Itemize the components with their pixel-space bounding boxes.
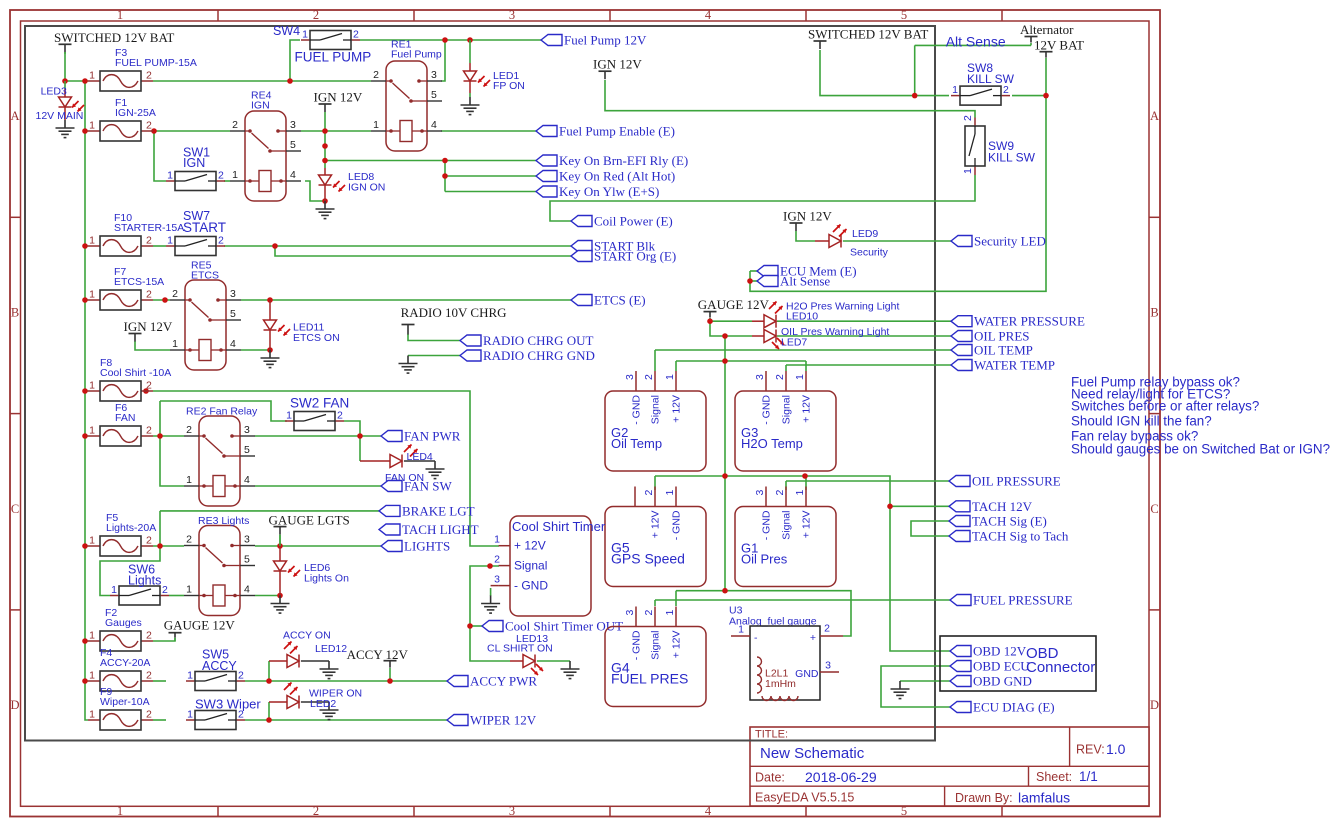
svg-text:Sheet:: Sheet: (1036, 770, 1072, 784)
svg-text:1: 1 (111, 584, 117, 596)
svg-text:1: 1 (89, 535, 95, 547)
svg-text:+ 12V: + 12V (801, 395, 813, 423)
svg-text:Signal: Signal (514, 559, 547, 573)
svg-text:TACH Sig (E): TACH Sig (E) (972, 514, 1047, 529)
svg-text:Key On Brn-EFI Rly (E): Key On Brn-EFI Rly (E) (559, 153, 688, 168)
svg-text:1: 1 (89, 380, 95, 392)
svg-text:IGN-25A: IGN-25A (115, 107, 156, 119)
svg-text:2: 2 (146, 425, 152, 437)
svg-text:Oil Temp: Oil Temp (611, 436, 662, 451)
svg-text:GPS Speed: GPS Speed (611, 551, 685, 567)
svg-text:Alt Sense: Alt Sense (780, 274, 830, 289)
svg-text:2: 2 (494, 554, 500, 566)
svg-text:A: A (1150, 109, 1159, 123)
svg-text:ETCS-15A: ETCS-15A (114, 276, 164, 288)
svg-text:WIPER 12V: WIPER 12V (470, 713, 537, 728)
svg-text:1: 1 (167, 235, 173, 247)
svg-text:+ 12V: + 12V (671, 395, 683, 423)
svg-text:Lights: Lights (128, 574, 161, 588)
svg-text:H2O Temp: H2O Temp (741, 436, 803, 451)
svg-text:OBD ECU: OBD ECU (973, 659, 1030, 674)
svg-text:5: 5 (901, 8, 907, 22)
svg-text:2: 2 (218, 170, 224, 182)
svg-text:GAUGE LGTS: GAUGE LGTS (269, 513, 350, 528)
svg-text:LED12: LED12 (315, 643, 347, 655)
svg-text:1: 1 (952, 84, 958, 96)
svg-text:1: 1 (232, 169, 238, 181)
svg-text:1: 1 (664, 610, 676, 616)
svg-text:Gauges: Gauges (105, 617, 142, 629)
svg-text:FAN: FAN (115, 412, 135, 424)
svg-text:2: 2 (146, 235, 152, 247)
svg-text:1: 1 (167, 170, 173, 182)
svg-text:EasyEDA V5.5.15: EasyEDA V5.5.15 (755, 791, 854, 805)
svg-text:FAN PWR: FAN PWR (404, 429, 461, 444)
svg-text:1: 1 (286, 410, 292, 422)
svg-text:Key On Ylw (E+S): Key On Ylw (E+S) (559, 184, 659, 199)
svg-text:SWITCHED 12V BAT: SWITCHED 12V BAT (54, 30, 174, 45)
svg-text:LED9: LED9 (852, 228, 878, 240)
svg-text:OBD GND: OBD GND (973, 674, 1032, 689)
svg-text:1: 1 (187, 709, 193, 721)
svg-text:2: 2 (353, 29, 359, 41)
svg-text:ACCY: ACCY (202, 659, 237, 673)
svg-text:1: 1 (89, 709, 95, 721)
svg-text:- GND: - GND (514, 579, 548, 593)
svg-text:ECU DIAG (E): ECU DIAG (E) (973, 700, 1055, 715)
svg-text:12V MAIN: 12V MAIN (36, 110, 84, 122)
svg-text:+ 12V: + 12V (650, 511, 662, 539)
svg-text:FUEL PRES: FUEL PRES (611, 671, 688, 687)
svg-text:1: 1 (794, 490, 806, 496)
svg-text:2: 2 (146, 535, 152, 547)
svg-text:2: 2 (172, 288, 178, 300)
svg-text:Security LED: Security LED (974, 234, 1046, 249)
svg-text:1: 1 (89, 425, 95, 437)
svg-text:1: 1 (794, 374, 806, 380)
svg-text:2: 2 (146, 70, 152, 82)
svg-text:SW3 Wiper: SW3 Wiper (195, 697, 261, 712)
svg-text:Cool Shirt Timer: Cool Shirt Timer (512, 519, 606, 534)
svg-text:TACH LIGHT: TACH LIGHT (402, 522, 479, 537)
svg-text:OIL TEMP: OIL TEMP (974, 343, 1033, 358)
svg-text:START Org (E): START Org (E) (594, 249, 676, 264)
svg-text:C: C (11, 502, 19, 516)
svg-text:1: 1 (302, 29, 308, 41)
svg-text:2: 2 (162, 584, 168, 596)
svg-text:IGN: IGN (251, 100, 270, 112)
svg-text:3: 3 (754, 374, 766, 380)
svg-text:LIGHTS: LIGHTS (404, 539, 450, 554)
svg-text:- GND: - GND (761, 395, 773, 425)
svg-text:ACCY-20A: ACCY-20A (100, 657, 150, 669)
svg-text:GAUGE 12V: GAUGE 12V (698, 297, 770, 312)
svg-text:KILL SW: KILL SW (967, 72, 1015, 86)
svg-text:4: 4 (230, 338, 236, 350)
svg-text:1: 1 (186, 584, 192, 596)
svg-text:1: 1 (664, 374, 676, 380)
svg-text:WATER PRESSURE: WATER PRESSURE (974, 314, 1085, 329)
svg-text:OIL PRES: OIL PRES (974, 329, 1030, 344)
svg-text:A: A (10, 109, 19, 123)
svg-text:1: 1 (373, 119, 379, 131)
svg-text:FAN ON: FAN ON (385, 472, 424, 484)
svg-text:2: 2 (146, 380, 152, 392)
svg-text:2: 2 (238, 670, 244, 682)
svg-text:1: 1 (89, 289, 95, 301)
svg-text:Fuel Pump: Fuel Pump (391, 49, 442, 61)
svg-text:2: 2 (774, 374, 786, 380)
svg-text:+ 12V: + 12V (514, 539, 546, 553)
svg-text:Connector: Connector (1026, 659, 1095, 676)
svg-text:Security: Security (850, 247, 889, 259)
svg-text:3: 3 (624, 610, 636, 616)
svg-text:WATER TEMP: WATER TEMP (974, 358, 1055, 373)
svg-text:1: 1 (187, 670, 193, 682)
svg-text:1: 1 (172, 338, 178, 350)
svg-text:- GND: - GND (671, 510, 683, 540)
svg-text:2: 2 (643, 490, 655, 496)
svg-text:3: 3 (825, 660, 831, 672)
svg-text:2: 2 (337, 410, 343, 422)
svg-text:IGN 12V: IGN 12V (593, 57, 642, 72)
svg-text:Signal: Signal (650, 395, 662, 424)
svg-text:1: 1 (738, 624, 744, 636)
svg-text:D: D (1150, 698, 1159, 712)
svg-text:2: 2 (962, 115, 974, 121)
svg-text:B: B (11, 305, 19, 319)
svg-text:ACCY 12V: ACCY 12V (347, 647, 409, 662)
svg-text:GND: GND (795, 668, 819, 680)
svg-text:REV:: REV: (1076, 743, 1105, 757)
svg-text:RE2 Fan Relay: RE2 Fan Relay (186, 406, 258, 418)
svg-text:New Schematic: New Schematic (760, 745, 865, 762)
svg-text:3: 3 (290, 119, 296, 131)
svg-text:3: 3 (509, 8, 515, 22)
svg-text:Key On Red (Alt Hot): Key On Red (Alt Hot) (559, 169, 675, 184)
svg-text:3: 3 (494, 574, 500, 586)
svg-text:4: 4 (290, 169, 296, 181)
svg-text:1: 1 (89, 630, 95, 642)
svg-text:5: 5 (244, 554, 250, 566)
svg-text:- GND: - GND (631, 395, 643, 425)
svg-text:4: 4 (244, 474, 250, 486)
svg-text:1: 1 (962, 168, 974, 174)
svg-text:Alt Sense: Alt Sense (946, 34, 1006, 50)
svg-text:+: + (810, 632, 816, 644)
svg-text:2: 2 (643, 374, 655, 380)
svg-text:1: 1 (89, 670, 95, 682)
svg-text:3: 3 (509, 804, 515, 818)
svg-text:3: 3 (230, 288, 236, 300)
svg-text:2: 2 (146, 709, 152, 721)
svg-text:LED7: LED7 (781, 337, 807, 349)
svg-text:LED2: LED2 (310, 698, 336, 710)
svg-text:-: - (754, 632, 758, 644)
svg-text:IGN 12V: IGN 12V (124, 319, 173, 334)
svg-text:Drawn By:: Drawn By: (955, 791, 1013, 805)
svg-text:GAUGE 12V: GAUGE 12V (164, 618, 236, 633)
svg-text:TACH Sig to Tach: TACH Sig to Tach (972, 529, 1069, 544)
svg-text:ETCS: ETCS (191, 270, 219, 282)
svg-text:Wiper-10A: Wiper-10A (100, 696, 150, 708)
svg-text:OIL PRESSURE: OIL PRESSURE (972, 474, 1061, 489)
svg-text:2: 2 (232, 119, 238, 131)
svg-text:lamfalus: lamfalus (1018, 790, 1070, 806)
svg-text:3: 3 (624, 374, 636, 380)
svg-text:Date:: Date: (755, 771, 785, 785)
svg-text:FUEL PRESSURE: FUEL PRESSURE (973, 593, 1073, 608)
svg-text:CL SHIRT ON: CL SHIRT ON (487, 643, 553, 655)
svg-text:1: 1 (494, 534, 500, 546)
svg-text:2: 2 (373, 69, 379, 81)
svg-text:1: 1 (117, 8, 123, 22)
svg-text:LED10: LED10 (786, 311, 818, 323)
svg-text:2: 2 (774, 490, 786, 496)
svg-text:2: 2 (824, 623, 830, 635)
svg-text:ETCS (E): ETCS (E) (594, 293, 646, 308)
svg-text:Fuel Pump 12V: Fuel Pump 12V (564, 33, 647, 48)
svg-text:4: 4 (244, 584, 250, 596)
svg-text:B: B (1150, 305, 1158, 319)
svg-text:IGN 12V: IGN 12V (314, 90, 363, 105)
svg-text:TITLE:: TITLE: (755, 729, 788, 741)
svg-text:- GND: - GND (631, 630, 643, 660)
svg-text:START: START (183, 220, 226, 235)
svg-text:Coil Power (E): Coil Power (E) (594, 214, 673, 229)
svg-text:3: 3 (431, 69, 437, 81)
svg-text:1: 1 (117, 804, 123, 818)
svg-text:1.0: 1.0 (1106, 741, 1126, 757)
svg-text:Should IGN kill the fan?: Should IGN kill the fan? (1071, 414, 1212, 429)
svg-text:FUEL PUMP: FUEL PUMP (295, 50, 372, 65)
svg-text:ACCY PWR: ACCY PWR (470, 674, 537, 689)
svg-text:1: 1 (664, 490, 676, 496)
svg-text:RADIO 10V CHRG: RADIO 10V CHRG (401, 305, 507, 320)
svg-text:2: 2 (313, 804, 319, 818)
svg-text:ETCS ON: ETCS ON (293, 332, 340, 344)
svg-text:2: 2 (146, 630, 152, 642)
svg-text:Signal: Signal (781, 511, 793, 540)
svg-text:Signal: Signal (650, 631, 662, 660)
svg-text:TACH 12V: TACH 12V (972, 499, 1033, 514)
svg-text:2: 2 (146, 120, 152, 132)
svg-text:1: 1 (89, 70, 95, 82)
svg-text:2: 2 (186, 534, 192, 546)
svg-text:KILL SW: KILL SW (988, 151, 1036, 165)
svg-text:1/1: 1/1 (1079, 769, 1098, 784)
svg-text:SW2 FAN: SW2 FAN (290, 396, 349, 411)
svg-text:5: 5 (431, 89, 437, 101)
svg-text:Alternator: Alternator (1020, 22, 1074, 37)
svg-text:SW4: SW4 (273, 24, 300, 38)
svg-text:1: 1 (89, 120, 95, 132)
svg-text:C: C (1150, 502, 1158, 516)
svg-text:Lights-20A: Lights-20A (106, 522, 156, 534)
svg-text:4: 4 (431, 119, 437, 131)
svg-text:FP ON: FP ON (493, 80, 525, 92)
svg-text:2: 2 (313, 8, 319, 22)
svg-text:2: 2 (643, 610, 655, 616)
svg-text:Should gauges be on Switched B: Should gauges be on Switched Bat or IGN? (1071, 442, 1330, 457)
svg-text:3: 3 (244, 424, 250, 436)
svg-text:Switches before or after relay: Switches before or after relays? (1071, 399, 1259, 414)
svg-text:IGN: IGN (183, 156, 205, 170)
svg-text:5: 5 (290, 139, 296, 151)
svg-text:5: 5 (230, 308, 236, 320)
svg-text:- GND: - GND (761, 510, 773, 540)
svg-text:SWITCHED 12V BAT: SWITCHED 12V BAT (808, 27, 928, 42)
svg-text:STARTER-15A: STARTER-15A (114, 222, 184, 234)
svg-text:OBD 12V: OBD 12V (973, 644, 1027, 659)
svg-text:2: 2 (218, 235, 224, 247)
svg-text:IGN 12V: IGN 12V (783, 209, 832, 224)
svg-text:2: 2 (146, 289, 152, 301)
svg-text:12V BAT: 12V BAT (1034, 38, 1084, 53)
svg-text:3: 3 (754, 490, 766, 496)
svg-text:4: 4 (705, 804, 712, 818)
svg-text:2: 2 (146, 670, 152, 682)
svg-text:2018-06-29: 2018-06-29 (805, 769, 877, 785)
svg-text:D: D (10, 698, 19, 712)
svg-text:RADIO CHRG GND: RADIO CHRG GND (483, 348, 595, 363)
svg-text:Cool Shirt -10A: Cool Shirt -10A (100, 367, 171, 379)
svg-text:FUEL PUMP-15A: FUEL PUMP-15A (115, 57, 197, 69)
svg-text:1: 1 (89, 235, 95, 247)
svg-text:Fuel Pump Enable (E): Fuel Pump Enable (E) (559, 124, 675, 139)
svg-text:1mHm: 1mHm (765, 678, 796, 690)
svg-text:RADIO CHRG OUT: RADIO CHRG OUT (483, 333, 594, 348)
svg-text:2: 2 (186, 424, 192, 436)
svg-text:Lights On: Lights On (304, 573, 349, 585)
svg-text:+ 12V: + 12V (671, 631, 683, 659)
svg-text:ACCY ON: ACCY ON (283, 630, 331, 642)
svg-text:4: 4 (705, 8, 712, 22)
svg-text:LED3: LED3 (41, 86, 67, 98)
svg-text:LED4: LED4 (407, 451, 433, 463)
svg-text:Oil Pres: Oil Pres (741, 552, 788, 567)
svg-text:1: 1 (186, 474, 192, 486)
svg-text:Signal: Signal (781, 395, 793, 424)
svg-text:5: 5 (244, 444, 250, 456)
svg-text:3: 3 (244, 534, 250, 546)
svg-text:+ 12V: + 12V (801, 511, 813, 539)
svg-text:IGN ON: IGN ON (348, 182, 385, 194)
svg-text:BRAKE LGT: BRAKE LGT (402, 503, 475, 518)
svg-text:RE3 Lights: RE3 Lights (198, 515, 249, 527)
